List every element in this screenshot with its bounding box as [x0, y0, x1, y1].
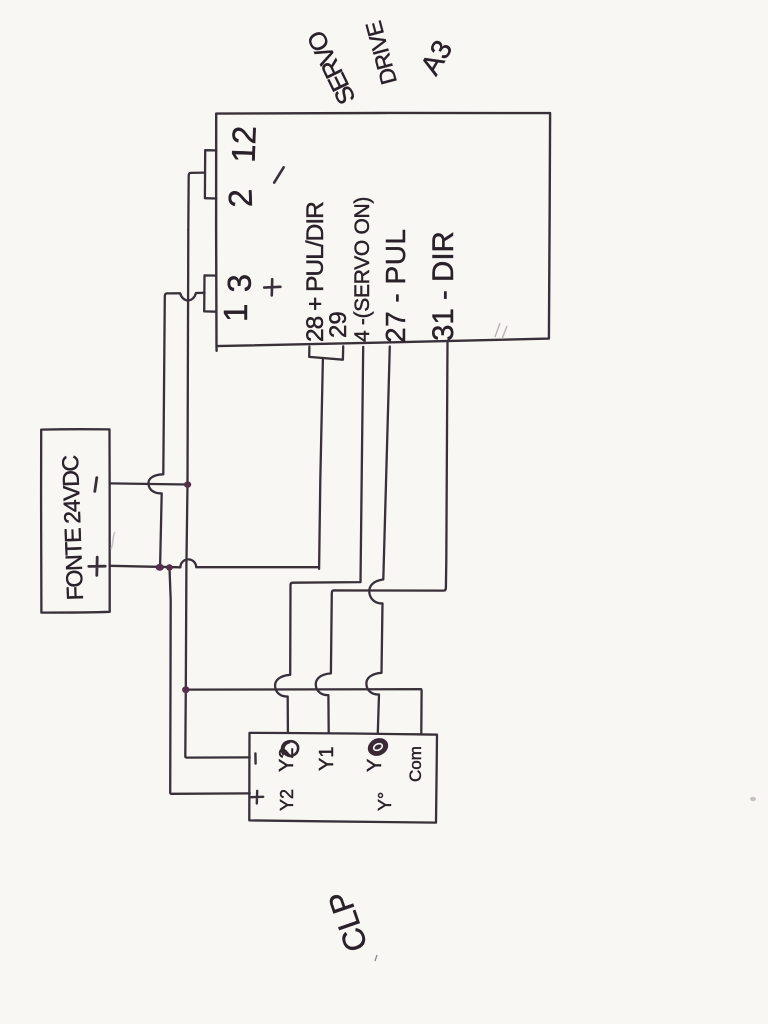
svg-text:FONTE 24VDC: FONTE 24VDC: [57, 455, 88, 601]
label 4 -(SERVO ON): [351, 197, 374, 342]
svg-text:29: 29: [325, 311, 352, 338]
svg-text:1: 1: [217, 304, 254, 322]
scribble blob over Y0 digit: [365, 735, 391, 759]
svg-text:Com: Com: [406, 746, 425, 782]
label CLP: [321, 887, 375, 957]
label SERVO: [302, 26, 361, 108]
label pins 2 12: [221, 125, 262, 208]
label A3: [414, 35, 458, 80]
label 27 - PUL: [380, 229, 411, 344]
svg-text:27 - PUL: 27 - PUL: [380, 229, 411, 344]
svg-text:12: 12: [225, 125, 263, 163]
scribble over Y2 digit: [282, 741, 298, 756]
wire: tab 1/3 with hop over minus wire (net A): [148, 293, 204, 566]
label CLP Y1 top: [316, 747, 338, 771]
label CLP Y2 bottom: [277, 789, 297, 811]
svg-text:DRIVE: DRIVE: [361, 18, 402, 87]
fonte 24VDC box: [41, 429, 110, 612]
svg-text:3: 3: [220, 273, 258, 293]
junction dot: CLP plus branch on plus wire: [166, 564, 173, 570]
label CLP Y0 top: [364, 759, 386, 772]
faint speck right margin: [750, 797, 756, 801]
label CLP Yo bottom: [375, 792, 395, 811]
svg-text:CLP: CLP: [321, 887, 375, 957]
terminal tab pins 2/12: [205, 150, 216, 198]
servo drive box U1: [216, 113, 550, 351]
junction dot: minus wire to net B: [184, 481, 191, 488]
faint smudge near fonte: [111, 532, 115, 549]
svg-text:Y°: Y°: [375, 792, 395, 811]
minus sign fonte: [95, 478, 97, 492]
wire: pin 28/29 down to plus net: [319, 359, 323, 569]
wire: pin 31 to CLP Y1 with jog and hop over com line: [316, 341, 448, 733]
svg-text:Y2: Y2: [276, 748, 298, 772]
svg-text:2: 2: [221, 188, 259, 208]
svg-text:Y2: Y2: [277, 789, 297, 811]
svg-text:Y1: Y1: [316, 747, 338, 771]
wire: fonte plus horizontal with hop over net B: [110, 559, 319, 567]
svg-text:4 -(SERVO ON): 4 -(SERVO ON): [351, 197, 374, 342]
label CLP Com: [406, 746, 425, 782]
label DRIVE: [361, 18, 402, 87]
label CLP Y2 top: [276, 748, 298, 772]
label 31 - DIR: [427, 231, 460, 341]
wire: plus net down to CLP + terminal: [170, 568, 250, 794]
junction dot: com line to net B: [182, 686, 189, 693]
wire: fonte minus to net B junction: [110, 483, 187, 484]
label 29: [325, 311, 352, 338]
plus sign CLP: [251, 791, 263, 804]
svg-text:SERVO: SERVO: [302, 26, 361, 108]
wire: pins 28/29 jumper bracket: [309, 346, 343, 359]
svg-text:31 - DIR: 31 - DIR: [427, 231, 460, 341]
wire: minus net vertical (net B): [185, 230, 249, 758]
CLP box: [249, 733, 437, 823]
faint tick bottom: [375, 955, 377, 961]
svg-text:A3: A3: [414, 35, 458, 80]
plus sign fonte: [89, 557, 105, 575]
junction dot: net A on plus wire: [156, 564, 164, 571]
svg-text:Y: Y: [364, 759, 386, 772]
wire: pin 4 to CLP Y2 with jog and hop over com line: [275, 347, 363, 733]
plus sign for pins 1/3: [264, 279, 280, 295]
label 28 + PUL/DIR: [302, 202, 329, 342]
wire: pin 27 to CLP Y0 with hop over pin31 jog and com line: [366, 347, 389, 733]
label pins 1 3: [217, 273, 258, 322]
minus sign CLP: [254, 753, 257, 763]
wire: com line from minus net to CLP Com: [186, 689, 422, 733]
label FONTE 24VDC: [57, 455, 88, 601]
wire: tab 2/12 to minus net corner: [188, 173, 205, 230]
faint pencil marks near servo box corner: [495, 323, 507, 339]
terminal tab pins 1/3: [204, 275, 216, 311]
minus sign for pins 2/12: [274, 167, 283, 182]
